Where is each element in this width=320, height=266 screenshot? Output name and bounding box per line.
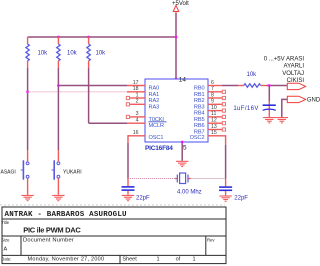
svg-text:9: 9 (211, 99, 214, 105)
svg-text:YUKARI: YUKARI (63, 170, 82, 176)
svg-text:2: 2 (136, 99, 139, 105)
pin 4 MCLR (overline) (127, 118, 167, 130)
svg-text:ANTRAK - BARBAROS ASUROGLU: ANTRAK - BARBAROS ASUROGLU (5, 211, 128, 219)
svg-text:8: 8 (211, 92, 214, 98)
ground (GND port) (276, 118, 288, 123)
svg-text:10k: 10k (247, 72, 258, 78)
pin 7 RB1 (194, 86, 226, 98)
wire +5V vertical down to pin 14 (175, 13, 177, 79)
svg-text:4.00 Mhz: 4.00 Mhz (177, 190, 202, 196)
svg-text:RB2: RB2 (194, 98, 205, 104)
svg-text:RB4: RB4 (194, 111, 205, 117)
pin 11 RB5 (194, 111, 226, 123)
svg-text:3: 3 (136, 111, 139, 117)
svg-text:RA3: RA3 (149, 104, 160, 110)
svg-text:4: 4 (136, 118, 139, 124)
svg-text:OSC2: OSC2 (190, 135, 205, 141)
svg-text:1: 1 (193, 257, 196, 263)
junction R1 column / RA1 wire (26, 90, 29, 93)
wire node RA0: to pin 17 (58, 85, 127, 87)
svg-text:13: 13 (211, 124, 217, 130)
pin 3 T0CKI (126, 111, 164, 123)
sheet edge dashed line (0, 204, 225, 206)
svg-text:+5Volt: +5Volt (172, 1, 189, 7)
svg-text:Size: Size (1, 238, 10, 243)
svg-text:11: 11 (211, 111, 216, 117)
ground (C3) (263, 118, 275, 123)
crystal Y1 (175, 173, 191, 184)
svg-text:10: 10 (211, 105, 217, 111)
svg-text:AYARLI: AYARLI (284, 64, 305, 70)
svg-text:7: 7 (211, 86, 214, 92)
wire GND port down (282, 99, 288, 117)
svg-text:RB3: RB3 (194, 104, 205, 110)
wire R3 column down (88, 68, 90, 123)
pin 13 RB7 (194, 124, 226, 136)
wire node MCLR: to pin 4 (89, 122, 127, 124)
svg-text:RA2: RA2 (149, 98, 160, 104)
svg-text:RA1: RA1 (149, 92, 160, 98)
svg-text:22pF: 22pF (234, 196, 248, 202)
svg-text:10k: 10k (96, 51, 107, 57)
ground (C1) (122, 195, 134, 200)
svg-text:PIC16F84: PIC16F84 (145, 145, 173, 152)
port CIKISI (output) (287, 83, 305, 89)
svg-text:OSC1: OSC1 (149, 135, 164, 141)
svg-text:17: 17 (133, 80, 139, 86)
svg-text:1uF/16V: 1uF/16V (233, 106, 258, 112)
ground (pin 5) (176, 161, 188, 166)
wire pin 5 to ground (181, 142, 183, 161)
pin 9 RB3 (194, 99, 226, 111)
svg-text:RB6: RB6 (194, 123, 205, 129)
wire node RA1: dashed to pin 18 (28, 91, 127, 93)
svg-text:10k: 10k (67, 51, 78, 57)
svg-text:RB5: RB5 (194, 117, 205, 123)
svg-text:6: 6 (211, 80, 214, 86)
svg-text:1: 1 (157, 257, 160, 263)
pushbutton YUKARI (52, 150, 60, 195)
svg-text:16: 16 (133, 130, 139, 136)
svg-text:14: 14 (179, 76, 187, 83)
wire R2 column down to YUKARI button (57, 68, 59, 150)
pin 1 RA2 (126, 92, 159, 104)
label 0...+5V ARASI AYARLI VOLTAJ CIKISI (264, 56, 305, 84)
pin 18 RA1 (127, 86, 159, 98)
svg-text:12: 12 (211, 118, 217, 124)
capacitor C3 1uF/16V (polarized) (263, 86, 276, 118)
pin 17 RA0 (127, 80, 159, 92)
pin 12 RB6 (194, 118, 226, 130)
svg-text:RB0: RB0 (194, 86, 205, 92)
svg-text:15: 15 (211, 130, 217, 136)
svg-text:Monday, November 27, 2000: Monday, November 27, 2000 (28, 257, 105, 263)
wire resistor to output port (267, 85, 288, 87)
svg-text:5: 5 (183, 144, 187, 151)
wire crystal net (dashed) left (128, 178, 175, 180)
junction top rail / +5V wire (175, 36, 178, 39)
pin 6 RB0 (194, 80, 222, 92)
IC U1 PIC16F84 body (145, 79, 208, 142)
pin 16 OSC1 (128, 130, 163, 141)
junction output node (268, 84, 271, 87)
port GND (287, 96, 305, 102)
svg-text:PIC ile PWM DAC: PIC ile PWM DAC (23, 225, 81, 234)
svg-text:1: 1 (136, 92, 139, 98)
wire OSC2 down (220, 136, 226, 145)
junction pin 5 (181, 141, 184, 144)
capacitor C1 22pF (left) (122, 179, 135, 195)
ground (ASAGI button) (21, 195, 33, 200)
svg-text:RB1: RB1 (194, 92, 205, 98)
title block frame (2, 207, 226, 264)
pin 2 RA3 (126, 99, 159, 111)
wire +5V top rail (28, 36, 176, 38)
svg-text:ASAGI: ASAGI (1, 170, 16, 176)
wire RB0 to resistor (222, 85, 238, 87)
resistor R4 10k (output) (238, 84, 267, 87)
svg-text:of: of (176, 257, 181, 263)
svg-text:Rev: Rev (207, 238, 215, 243)
svg-text:A: A (4, 246, 8, 252)
svg-text:RA0: RA0 (149, 86, 160, 92)
junction R2 column / RA0 wire (57, 84, 60, 87)
wire R1 column down to ASAGI button (27, 68, 29, 150)
svg-text:VOLTAJ: VOLTAJ (282, 71, 304, 77)
resistor R3 10k (right pull-up) (87, 37, 90, 68)
svg-text:Date:: Date: (1, 256, 11, 261)
power +5Volt symbol (173, 5, 179, 13)
svg-text:Document Number: Document Number (23, 238, 74, 244)
svg-text:Sheet: Sheet (122, 257, 137, 263)
wire crystal net (dashed) right (191, 178, 226, 180)
pushbutton ASAGI (21, 150, 29, 195)
junction top rail / R2 (57, 36, 60, 39)
resistor R2 10k (middle pull-up) (57, 37, 60, 68)
pin 15 OSC2 (190, 130, 220, 141)
svg-text:18: 18 (133, 86, 139, 92)
svg-text:10k: 10k (38, 51, 49, 57)
ground (YUKARI button) (52, 195, 64, 200)
junction top rail / R3 (87, 36, 90, 39)
wire OSC1 down (127, 135, 129, 143)
ground (C2) (219, 196, 231, 201)
capacitor C2 22pF (right) (219, 179, 232, 196)
svg-text:MCLR: MCLR (149, 123, 165, 129)
pin 8 RB2 (194, 92, 226, 104)
pin 10 RB4 (194, 105, 226, 117)
svg-text:Title: Title (1, 220, 9, 225)
svg-text:GND: GND (307, 98, 320, 104)
svg-text:22pF: 22pF (136, 195, 150, 201)
resistor R1 10k (left pull-up) (26, 37, 29, 68)
svg-text:0 ...+5V ARASI: 0 ...+5V ARASI (264, 56, 305, 62)
junction pin 14 (175, 78, 178, 81)
svg-text:CIKISI: CIKISI (287, 78, 305, 84)
